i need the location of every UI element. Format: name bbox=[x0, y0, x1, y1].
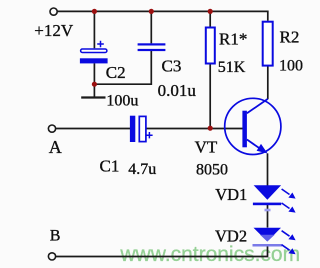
capacitor C2 (electrolytic) bbox=[80, 41, 108, 64]
svg-text:+12V: +12V bbox=[34, 21, 74, 40]
wire: C2 bottom lead bbox=[93, 63, 95, 98]
svg-text:R1*: R1* bbox=[219, 30, 247, 49]
svg-text:C1: C1 bbox=[100, 157, 120, 176]
node: rail-C2 junction bbox=[92, 9, 97, 14]
wire: VD1 to VD2 bbox=[267, 205, 269, 228]
wire: C3 top lead bbox=[150, 11, 152, 43]
svg-text:100u: 100u bbox=[106, 93, 138, 110]
svg-text:C3: C3 bbox=[162, 57, 182, 76]
node: R1-base junction bbox=[208, 126, 213, 131]
node: rail-R1 junction bbox=[208, 9, 213, 14]
svg-text:VD2: VD2 bbox=[215, 227, 247, 246]
svg-text:100: 100 bbox=[279, 57, 303, 74]
capacitor C1 (electrolytic, horizontal) bbox=[130, 116, 153, 142]
svg-text:0.01u: 0.01u bbox=[158, 81, 197, 100]
svg-text:8050: 8050 bbox=[196, 162, 228, 179]
terminal A bbox=[48, 125, 55, 132]
resistor R1 bbox=[206, 28, 215, 64]
svg-text:4.7u: 4.7u bbox=[128, 161, 156, 178]
LED VD1 bbox=[253, 185, 296, 212]
svg-text:VD1: VD1 bbox=[215, 185, 247, 204]
node: C2-C3 bottom junction bbox=[92, 82, 97, 87]
resistor R2 bbox=[263, 22, 273, 66]
svg-text:A: A bbox=[49, 137, 62, 157]
terminal B bbox=[48, 253, 55, 260]
wire: +12V top rail bbox=[56, 11, 268, 20]
terminal +12V bbox=[50, 8, 57, 15]
wire: C1 to transistor base bbox=[146, 128, 243, 130]
LED VD2 bbox=[253, 228, 296, 255]
wire: A input to C1 bbox=[56, 128, 131, 130]
svg-text:C2: C2 bbox=[106, 63, 126, 82]
svg-text:51K: 51K bbox=[218, 59, 246, 76]
wire: R1 top lead bbox=[209, 11, 211, 26]
ground T-bar below C2 bbox=[81, 96, 105, 98]
svg-text:VT: VT bbox=[195, 137, 218, 156]
node: rail-C3 junction bbox=[149, 9, 154, 14]
wire: R2 bottom lead to collector bbox=[267, 66, 269, 99]
wire: VD2 to bottom rail corner bbox=[56, 247, 268, 257]
svg-text:R2: R2 bbox=[280, 28, 300, 47]
transistor VT (NPN 8050) bbox=[225, 98, 281, 154]
wire: R1 bottom lead bbox=[209, 64, 211, 128]
wire: emitter to VD1 bbox=[267, 153, 269, 186]
wire: C3 bottom lead to C2 junction bbox=[94, 51, 151, 84]
capacitor C3 bbox=[138, 43, 166, 51]
wire: C2 top lead bbox=[93, 11, 95, 48]
svg-text:B: B bbox=[50, 228, 61, 245]
